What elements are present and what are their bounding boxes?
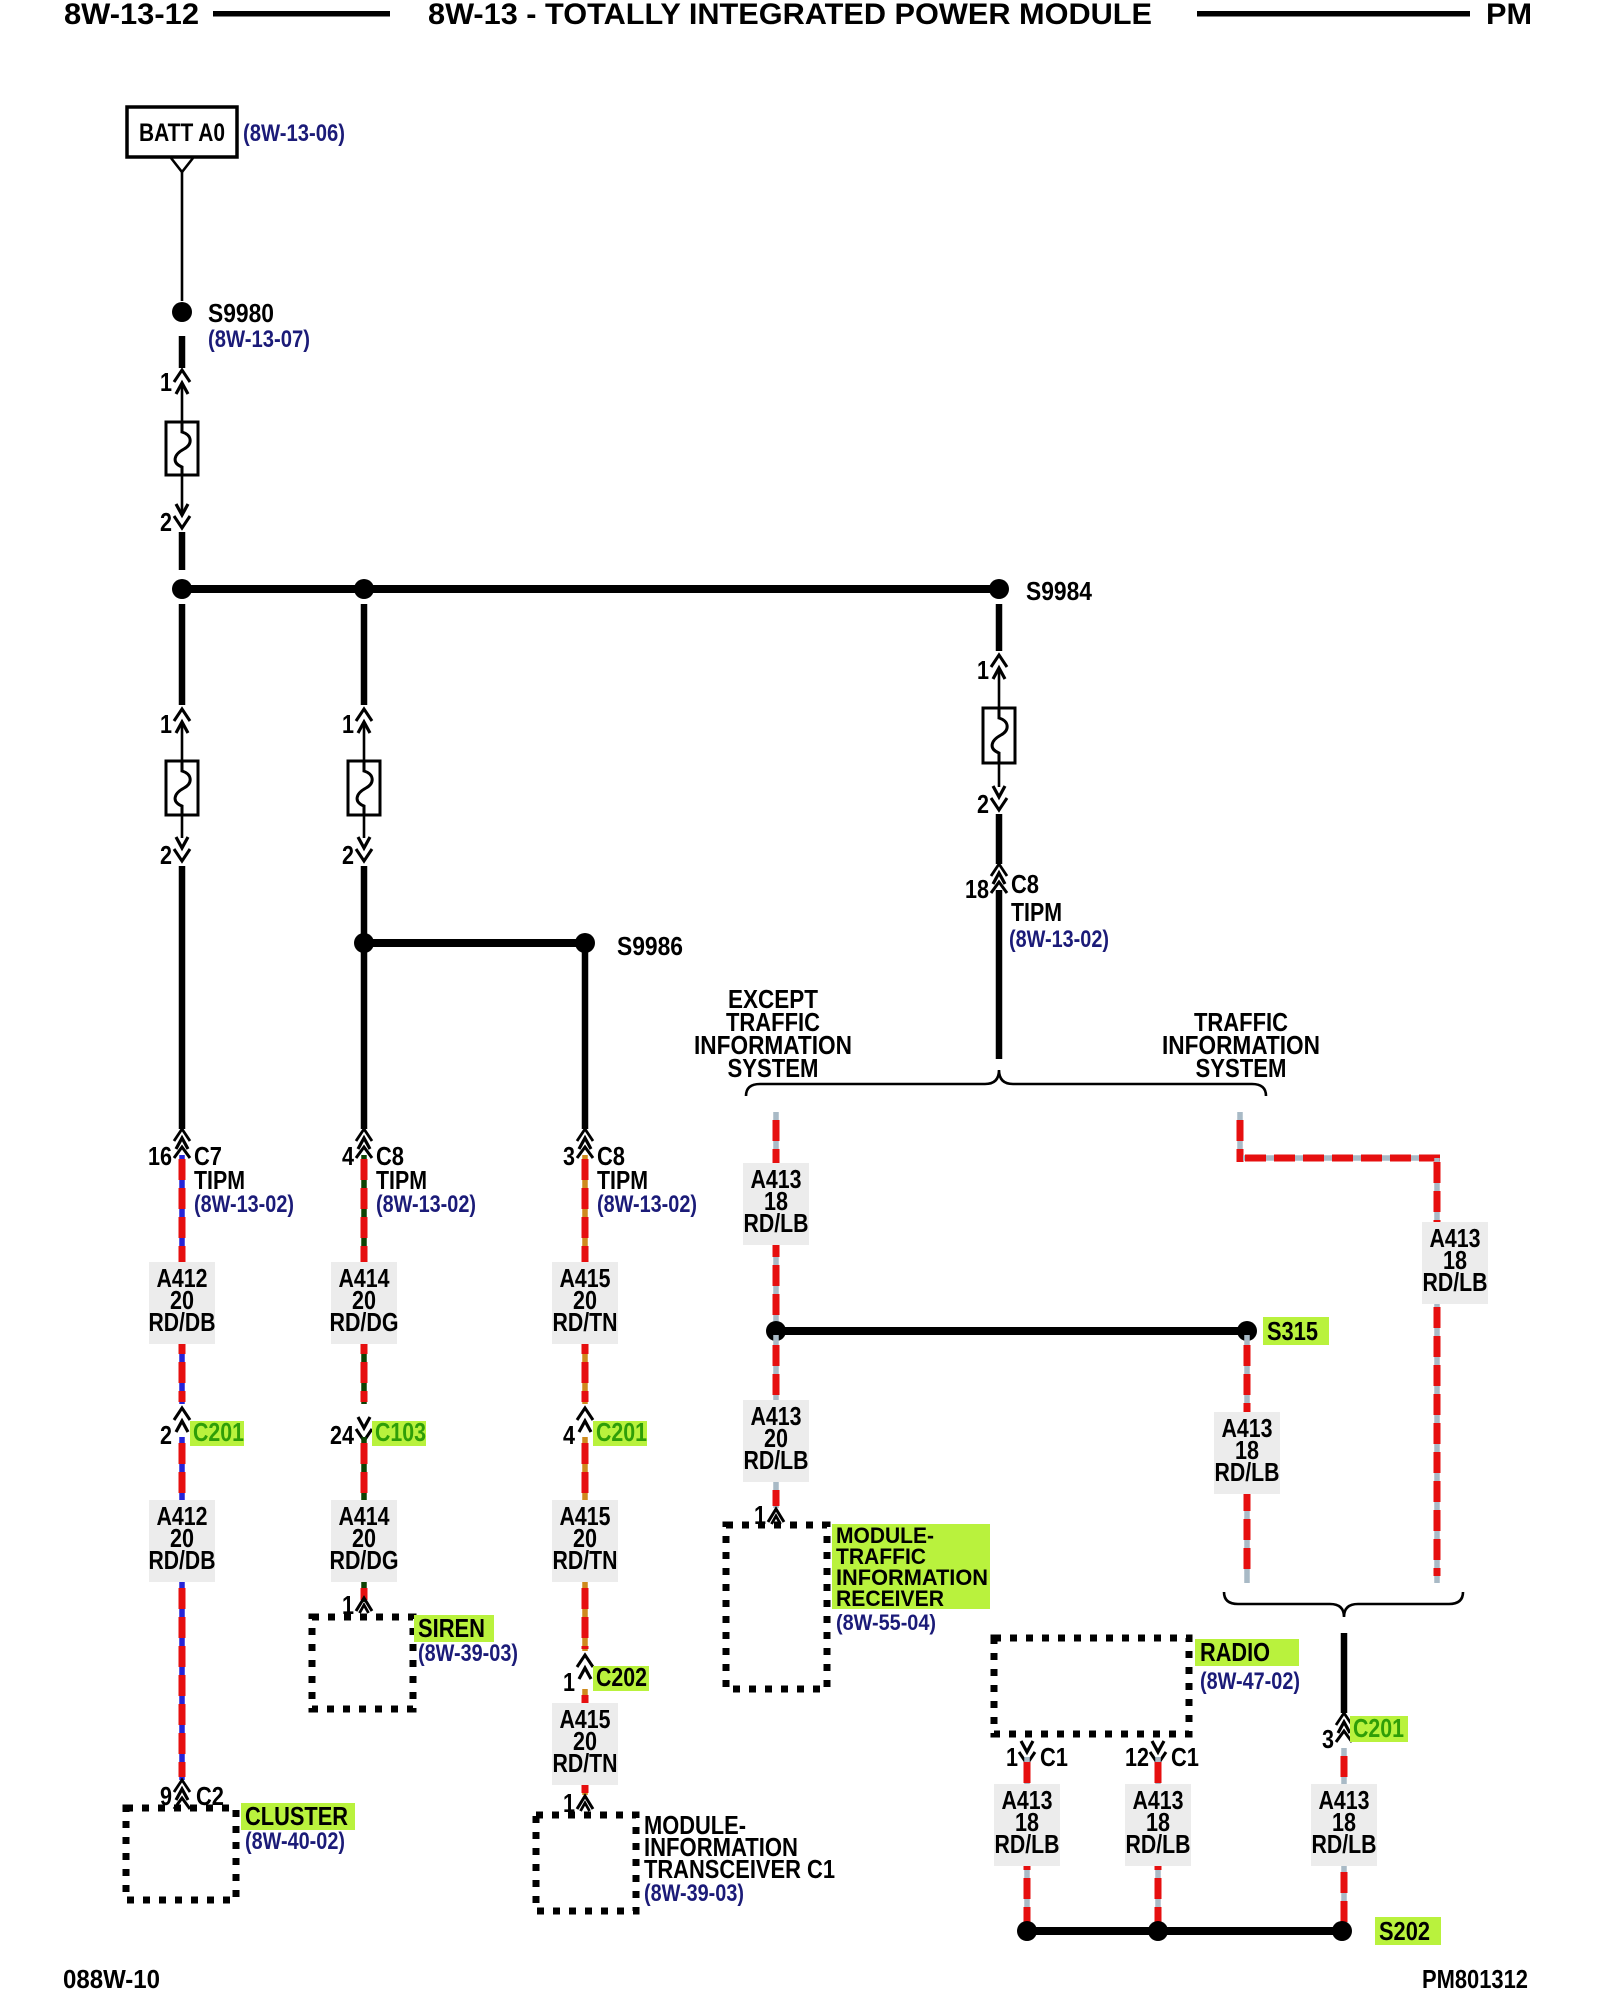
connector pin 1 col4 fuse — [977, 655, 1007, 685]
svg-text:RD/TN: RD/TN — [553, 1307, 618, 1337]
wire A415 lower segment — [582, 1689, 588, 1795]
connector C201 pin 3 radio — [1322, 1713, 1408, 1754]
svg-text:RECEIVER: RECEIVER — [836, 1586, 944, 1611]
svg-text:1: 1 — [160, 367, 172, 397]
header rule right — [1197, 11, 1470, 17]
svg-text:PM: PM — [1486, 0, 1532, 31]
box SIREN — [312, 1617, 413, 1709]
wire col2 below S9986 — [361, 950, 368, 1129]
svg-text:(8W-13-06): (8W-13-06) — [243, 120, 345, 147]
svg-text:(8W-13-07): (8W-13-07) — [208, 326, 310, 353]
header page number 8W-13-12 — [64, 0, 199, 31]
label A414 20 RD/DG upper — [330, 1262, 399, 1344]
wire out of fuse col4 — [998, 763, 1001, 787]
svg-text:2: 2 — [160, 507, 172, 537]
wire col2 to bus S9986 — [361, 866, 368, 938]
svg-text:C201: C201 — [596, 1417, 647, 1447]
brace splitting col4 wire — [746, 1070, 1266, 1096]
svg-text:18: 18 — [965, 874, 989, 904]
wire A415 upper segment — [582, 1155, 588, 1404]
fuse F2 col1 — [166, 761, 198, 815]
svg-text:RD/LB: RD/LB — [1423, 1267, 1488, 1297]
label EXCEPT TRAFFIC INFORMATION SYSTEM — [694, 984, 852, 1083]
svg-text:S9986: S9986 — [617, 931, 683, 961]
junction dot right on S315 — [1237, 1321, 1257, 1341]
connector C1 pin 1 radio — [1006, 1741, 1068, 1772]
svg-text:(8W-47-02): (8W-47-02) — [1200, 1668, 1300, 1695]
label A415 20 RD/TN lower — [552, 1703, 618, 1785]
connector pin 2 below fuse — [160, 504, 190, 537]
label TRAFFIC INFORMATION SYSTEM — [1162, 1007, 1320, 1083]
label A413 18 RD/LB radio pin12 — [1125, 1784, 1191, 1866]
label S9986 — [617, 931, 683, 961]
connector pin 1 col1 fuse — [160, 709, 190, 739]
wire col4 below S9984 — [996, 604, 1003, 651]
label A415 20 RD/TN upper — [552, 1262, 618, 1344]
svg-text:12: 12 — [1125, 1742, 1149, 1772]
wire to bus S9984 — [179, 532, 186, 570]
label A413 18 RD/LB far right — [1422, 1222, 1488, 1304]
connector pin 1 receiver — [754, 1500, 784, 1530]
junction dot right on S202 — [1332, 1921, 1352, 1941]
wire A413 horizontal run — [1243, 1155, 1441, 1161]
box MODULE-TRAFFIC INFORMATION RECEIVER — [726, 1525, 827, 1689]
splice S9980 — [172, 298, 310, 353]
label CLUSTER — [241, 1801, 355, 1855]
svg-text:TIPM: TIPM — [1011, 897, 1062, 927]
svg-text:PM801312: PM801312 — [1422, 1964, 1528, 1994]
svg-text:RD/DG: RD/DG — [330, 1545, 399, 1575]
svg-text:(8W-13-02): (8W-13-02) — [1009, 926, 1109, 953]
wire col3 below S9986 — [582, 950, 589, 1129]
svg-text:C201: C201 — [193, 1417, 244, 1447]
label A412 20 RD/DB lower — [149, 1500, 216, 1582]
svg-text:24: 24 — [330, 1420, 354, 1450]
junction dot middle on S202 — [1148, 1921, 1168, 1941]
svg-text:4: 4 — [342, 1141, 354, 1171]
connector C202 pin 1 col3 — [563, 1655, 649, 1697]
svg-text:(8W-55-04): (8W-55-04) — [836, 1610, 936, 1635]
connector C7 pin 16 TIPM — [148, 1129, 294, 1218]
wire A413 below S315 right — [1244, 1335, 1250, 1583]
wire col2 below S9984 — [361, 604, 368, 705]
wire into fuse col4 — [998, 669, 1001, 708]
svg-text:RD/LB: RD/LB — [1126, 1829, 1191, 1859]
box BATT A0 — [127, 107, 237, 157]
wire out of fuse col2 — [363, 815, 366, 838]
svg-text:SYSTEM: SYSTEM — [1196, 1053, 1287, 1083]
fuse F1 — [166, 422, 198, 475]
footer code PM801312 — [1422, 1964, 1528, 1994]
wire A414 lower segment — [361, 1437, 367, 1602]
svg-text:8W-13-12: 8W-13-12 — [64, 0, 199, 31]
header title — [428, 0, 1152, 31]
svg-text:2: 2 — [342, 840, 354, 870]
connector pin 1 col2 fuse — [342, 709, 372, 739]
svg-text:C1: C1 — [1171, 1742, 1199, 1772]
connector C8 pin 3 TIPM col3 — [563, 1129, 697, 1218]
wire into fuse col2 — [363, 723, 366, 761]
bus wire S315 — [776, 1327, 1247, 1335]
header rule left — [213, 11, 390, 17]
reference (8W-13-06) — [243, 120, 345, 147]
connector C2 pin 9 cluster — [160, 1780, 224, 1811]
terminal fork below BATT A0 — [171, 158, 193, 172]
junction dot left on S315 — [766, 1321, 786, 1341]
junction dot right on S9984 — [989, 579, 1009, 599]
svg-text:(8W-13-02): (8W-13-02) — [194, 1191, 294, 1218]
footer sheet number 088W-10 — [63, 1964, 160, 1994]
svg-text:RD/LB: RD/LB — [1312, 1829, 1377, 1859]
svg-text:2: 2 — [977, 789, 989, 819]
wire col4 to brace — [996, 890, 1003, 1059]
wire A413 S315 to receiver — [773, 1335, 779, 1508]
label A412 20 RD/DB upper — [149, 1262, 216, 1344]
wire A413 radio pin1 to S202 — [1024, 1757, 1030, 1931]
brace merging to radio C201 — [1224, 1592, 1463, 1617]
svg-text:088W-10: 088W-10 — [63, 1964, 160, 1994]
wire A415 middle segment — [582, 1437, 588, 1651]
junction dot left on S9986 — [354, 933, 374, 953]
svg-text:RD/LB: RD/LB — [744, 1208, 809, 1238]
svg-text:RD/DB: RD/DB — [149, 1307, 216, 1337]
bus wire S202 — [1027, 1927, 1342, 1935]
wire A413 brace to S315 — [773, 1112, 779, 1327]
connector pin 2 col2 fuse — [342, 837, 372, 870]
label S9984 — [1026, 576, 1092, 606]
junction dot middle on S9984 — [354, 579, 374, 599]
junction dot left on S9984 — [172, 579, 192, 599]
fuse F3 col2 — [348, 761, 380, 815]
wire A412 upper segment — [179, 1155, 185, 1404]
svg-text:RD/TN: RD/TN — [553, 1748, 618, 1778]
connector C201 pin 2 col1 — [160, 1408, 244, 1450]
svg-text:(8W-40-02): (8W-40-02) — [245, 1828, 345, 1855]
junction dot left on S202 — [1017, 1921, 1037, 1941]
connector pin 2 col1 fuse — [160, 837, 190, 870]
svg-text:(8W-13-02): (8W-13-02) — [376, 1191, 476, 1218]
svg-text:C8: C8 — [1011, 869, 1039, 899]
header page code PM — [1486, 0, 1532, 31]
wire A412 lower segment — [179, 1437, 185, 1780]
wire splice S9980 to fuse connector — [179, 336, 186, 368]
label S315 — [1263, 1316, 1329, 1346]
svg-text:1: 1 — [977, 655, 989, 685]
wire col1 below S9984 — [179, 604, 186, 705]
connector pin 1 above fuse — [160, 367, 190, 397]
wire out of fuse col1 — [181, 815, 184, 838]
label A415 20 RD/TN middle — [552, 1500, 618, 1582]
label A414 20 RD/DG lower — [330, 1500, 399, 1582]
label MODULE-TRAFFIC INFORMATION RECEIVER — [832, 1523, 990, 1635]
bus wire S9986 — [364, 939, 585, 947]
connector C1 pin 12 radio — [1125, 1741, 1199, 1772]
wire A413 brace right vertical — [1237, 1112, 1243, 1162]
svg-text:SYSTEM: SYSTEM — [728, 1053, 819, 1083]
svg-text:S9984: S9984 — [1026, 576, 1092, 606]
wire into fuse col1 — [181, 723, 184, 761]
label A413 18 RD/LB bottom right — [1311, 1784, 1377, 1866]
svg-text:C201: C201 — [1353, 1713, 1404, 1743]
label RADIO — [1195, 1637, 1300, 1695]
svg-text:C1: C1 — [1040, 1742, 1068, 1772]
label A413 18 RD/LB radio pin1 — [994, 1784, 1060, 1866]
svg-text:S315: S315 — [1267, 1316, 1318, 1346]
box CLUSTER — [126, 1808, 236, 1900]
box MODULE-INFORMATION TRANSCEIVER — [536, 1815, 636, 1911]
wire out of fuse — [181, 475, 184, 516]
svg-text:S202: S202 — [1379, 1916, 1430, 1946]
label A413 18 RD/LB below S315 — [1214, 1412, 1280, 1494]
connector C8 pin 18 TIPM col4 — [965, 864, 1109, 953]
svg-text:16: 16 — [148, 1141, 172, 1171]
svg-text:RADIO: RADIO — [1200, 1637, 1270, 1667]
box RADIO — [994, 1638, 1189, 1734]
svg-text:RD/LB: RD/LB — [744, 1445, 809, 1475]
svg-text:4: 4 — [563, 1420, 575, 1450]
wire col4 to connector C8 — [996, 814, 1003, 864]
wire A413 C201 to S202 — [1341, 1748, 1347, 1931]
label S202 — [1375, 1916, 1441, 1946]
label SIREN — [414, 1613, 518, 1667]
label A413 20 RD/LB — [743, 1400, 809, 1482]
connector C8 pin 4 TIPM col2 — [342, 1129, 476, 1218]
svg-text:RD/DB: RD/DB — [149, 1545, 216, 1575]
svg-text:1: 1 — [342, 709, 354, 739]
connector C201 pin 4 col3 — [563, 1408, 647, 1450]
label MODULE-INFORMATION TRANSCEIVER C1 — [644, 1810, 835, 1907]
svg-text:1: 1 — [1006, 1742, 1018, 1772]
connector pin 1 siren — [342, 1590, 372, 1620]
svg-text:RD/LB: RD/LB — [1215, 1457, 1280, 1487]
svg-text:(8W-39-03): (8W-39-03) — [418, 1640, 518, 1667]
wire A413 radio pin12 to S202 — [1155, 1757, 1161, 1931]
svg-text:1: 1 — [563, 1667, 575, 1697]
wire from BATT A0 to splice S9980 — [181, 172, 184, 301]
svg-text:2: 2 — [160, 840, 172, 870]
svg-text:2: 2 — [160, 1420, 172, 1450]
connector C103 pin 24 col2 — [330, 1417, 426, 1450]
wire A413 far right vertical — [1434, 1158, 1440, 1583]
wire into fuse — [181, 384, 184, 422]
svg-text:1: 1 — [160, 709, 172, 739]
svg-text:(8W-39-03): (8W-39-03) — [644, 1880, 744, 1907]
svg-text:C202: C202 — [596, 1662, 647, 1692]
svg-text:SIREN: SIREN — [418, 1613, 485, 1643]
wire brace to connector C201 — [1341, 1633, 1348, 1713]
svg-text:3: 3 — [563, 1141, 575, 1171]
wire col1 to connector C7 — [179, 866, 186, 1129]
junction dot right on S9986 — [575, 933, 595, 953]
svg-text:C103: C103 — [375, 1417, 426, 1447]
svg-text:BATT A0: BATT A0 — [139, 119, 225, 147]
svg-text:RD/DG: RD/DG — [330, 1307, 399, 1337]
svg-text:CLUSTER: CLUSTER — [245, 1801, 348, 1831]
label A413 18 RD/LB left upper — [743, 1163, 809, 1245]
svg-text:3: 3 — [1322, 1724, 1334, 1754]
bus wire S9984 — [182, 585, 999, 593]
connector pin 1 transceiver — [563, 1788, 593, 1818]
svg-text:RD/TN: RD/TN — [553, 1545, 618, 1575]
svg-text:(8W-13-02): (8W-13-02) — [597, 1191, 697, 1218]
fuse F4 col4 — [983, 708, 1015, 763]
svg-text:RD/LB: RD/LB — [995, 1829, 1060, 1859]
svg-text:8W-13 - TOTALLY INTEGRATED POW: 8W-13 - TOTALLY INTEGRATED POWER MODULE — [428, 0, 1152, 31]
wire A414 upper segment — [361, 1155, 367, 1404]
svg-text:S9980: S9980 — [208, 298, 274, 328]
connector pin 2 col4 fuse — [977, 786, 1007, 819]
